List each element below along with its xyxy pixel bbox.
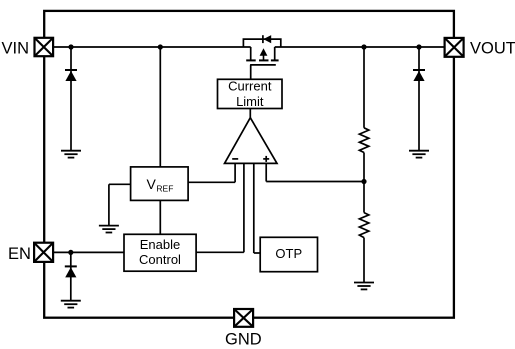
svg-text:VOUT: VOUT <box>470 40 515 58</box>
junction dot VIN rail / VREF tap <box>158 44 163 49</box>
pin label VIN <box>2 40 30 58</box>
wire EN input <box>53 251 124 253</box>
resistor R1 upper feedback resistor <box>359 128 368 153</box>
svg-text:Limit: Limit <box>236 94 264 109</box>
svg-text:OTP: OTP <box>275 246 302 261</box>
wire inverting input to VREF <box>188 163 235 182</box>
svg-text:Enable: Enable <box>140 237 180 252</box>
svg-text:GND: GND <box>225 331 262 349</box>
ground symbol (VOUT ESD diode) <box>409 151 429 158</box>
transistor Q1 PMOS pass device : body diode loop <box>243 39 280 47</box>
ground symbol (feedback divider) <box>354 283 374 290</box>
diode D3 (VOUT ESD diode) <box>413 70 425 81</box>
block Enable Control <box>124 234 196 271</box>
pin label GND <box>225 331 262 349</box>
diode D2 (EN ESD diode) <box>65 266 77 277</box>
wire VREF ground lead <box>109 184 131 225</box>
junction dot feedback node <box>361 179 366 184</box>
transistor Q1 drain stub <box>274 47 276 60</box>
junction dot EN / ESD diode <box>68 250 73 255</box>
pin label VOUT <box>470 40 515 58</box>
wire Current Limit to amplifier apex <box>249 109 251 120</box>
pin EN <box>34 243 53 262</box>
wire VREF to Enable Control <box>159 200 161 234</box>
wire divider bottom <box>363 238 365 283</box>
svg-text:Control: Control <box>139 252 181 267</box>
transistor Q1 gate bar <box>250 64 276 66</box>
pin VOUT <box>445 38 464 57</box>
wire non-inverting input to feedback node <box>266 163 364 181</box>
wire VREF supply tap <box>159 47 161 167</box>
junction dot VIN rail / diode branch <box>68 44 73 49</box>
wire divider middle <box>363 153 365 213</box>
wire EN ESD diode branch <box>70 252 72 300</box>
pin GND <box>234 309 253 327</box>
ground symbol (EN ESD diode) <box>61 301 81 308</box>
wire VOUT rail right segment <box>275 46 445 48</box>
junction dot VOUT rail / diode branch <box>416 44 421 49</box>
svg-text:V: V <box>147 176 157 192</box>
wire VOUT ESD diode branch <box>418 47 420 151</box>
svg-text:REF: REF <box>156 183 173 193</box>
body diode of Q1 <box>263 35 271 43</box>
pin VIN <box>35 38 54 56</box>
wire OTP signal to amplifier <box>254 163 260 253</box>
transistor Q1 source/body/drain contact bars <box>246 59 278 61</box>
pin label EN <box>8 245 31 263</box>
ground symbol (VREF) <box>99 226 119 233</box>
wire gate lead to Current Limit <box>250 65 252 79</box>
diode D1 (VIN ESD diode) <box>65 70 77 81</box>
junction dot VOUT rail / divider <box>361 44 366 49</box>
transistor Q1 source stub <box>250 47 252 60</box>
svg-text:EN: EN <box>8 245 31 263</box>
ground symbol (VIN ESD diode) <box>61 151 81 158</box>
wire VIN ESD diode branch <box>70 47 72 151</box>
block Current Limit <box>218 79 283 109</box>
wire enable signal from Enable Control to amplifier <box>196 163 244 252</box>
svg-text:VIN: VIN <box>2 40 30 58</box>
resistor R2 lower feedback resistor <box>359 213 368 238</box>
svg-text:Current: Current <box>228 79 272 94</box>
block VREF <box>131 167 189 201</box>
block OTP <box>260 237 317 271</box>
wire feedback divider top <box>363 47 365 128</box>
IC boundary box <box>44 11 454 318</box>
transistor Q1 body arrow <box>260 48 268 59</box>
wire VIN rail left segment <box>53 46 251 48</box>
op-amp U1 error amplifier <box>225 118 278 164</box>
